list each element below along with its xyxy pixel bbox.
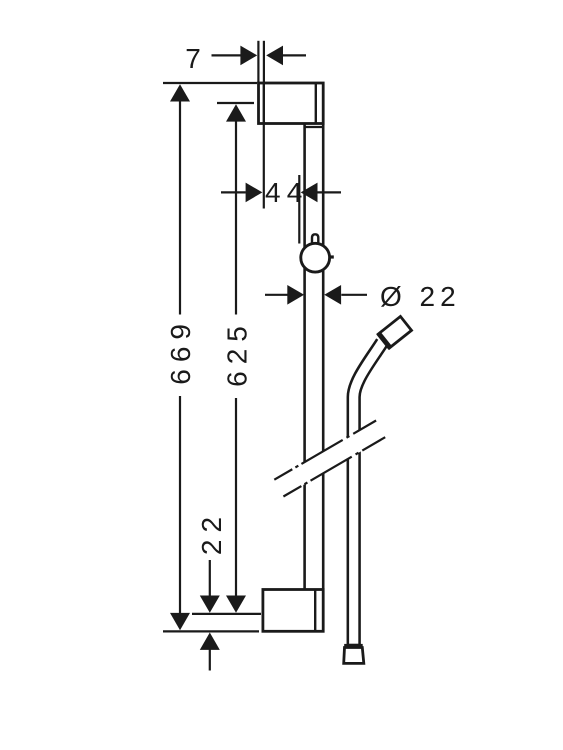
dim 625 line lower	[235, 398, 237, 596]
rail front line	[303, 124, 306, 590]
rail top cap line	[305, 126, 324, 128]
dim 669 top extension line	[163, 82, 257, 84]
rail back line	[322, 124, 325, 590]
dim dia22 arrow left	[287, 285, 304, 305]
dim 669 line lower	[179, 396, 181, 613]
dim 44 extension line right	[298, 175, 300, 244]
dim 44 arrow right	[301, 183, 318, 203]
hose nozzle (handshower connector)	[376, 316, 412, 350]
rail bottom reference line	[192, 613, 261, 615]
shower hose outline	[354, 342, 383, 645]
slider knob	[301, 243, 330, 272]
break line lower	[283, 437, 385, 496]
slider stub	[312, 234, 318, 248]
dim 7 line right	[283, 54, 306, 56]
dim 44 line right	[318, 191, 342, 193]
hose ferrule band	[344, 644, 363, 648]
dim 22 upper tail	[209, 560, 211, 596]
dim 669 line upper	[179, 101, 181, 314]
dim 7 arrow right	[266, 46, 283, 66]
break line upper	[274, 421, 376, 480]
dim 7 extension line outer	[257, 41, 259, 83]
shower hose inner white	[354, 334, 388, 644]
top bracket wall-plate inner edge	[263, 83, 265, 124]
dim 22 up arrow	[200, 633, 220, 650]
dim 22 lower tail	[209, 649, 211, 670]
svg-text:22: 22	[196, 510, 227, 555]
svg-text:625: 625	[222, 319, 253, 387]
break band mask	[274, 421, 385, 497]
hose conical nut	[344, 648, 364, 664]
bottom bracket collar inner edge	[314, 590, 316, 632]
svg-text:Ø 22: Ø 22	[380, 281, 461, 312]
dim 7 extension line inner	[263, 41, 265, 83]
dim dia22 line left	[265, 294, 288, 296]
dim 22 down arrow	[200, 596, 220, 613]
dim 625 top extension line	[217, 102, 254, 104]
dim 7 line left	[212, 54, 241, 56]
top bracket collar inner edge	[315, 83, 317, 124]
dim 44 line left	[221, 191, 246, 193]
dim 669 top arrow	[170, 84, 190, 101]
dim 625 top arrow	[226, 104, 246, 121]
bottom wall bracket	[263, 590, 323, 632]
svg-text:669: 669	[165, 317, 196, 385]
dim 669 bottom arrow	[170, 613, 190, 630]
slider button nub	[331, 255, 334, 258]
svg-text:7: 7	[185, 43, 201, 74]
bracket bottom reference line	[163, 630, 259, 632]
dim 7 arrow left	[240, 46, 257, 66]
dim 625 line upper	[235, 121, 237, 314]
dim dia22 arrow right	[324, 285, 341, 305]
dim dia22 line right	[341, 294, 367, 296]
dim 625 bottom arrow	[226, 596, 246, 613]
dim 44 extension line left	[263, 124, 265, 209]
dim 44 arrow left	[246, 183, 263, 203]
top wall bracket	[259, 83, 324, 124]
